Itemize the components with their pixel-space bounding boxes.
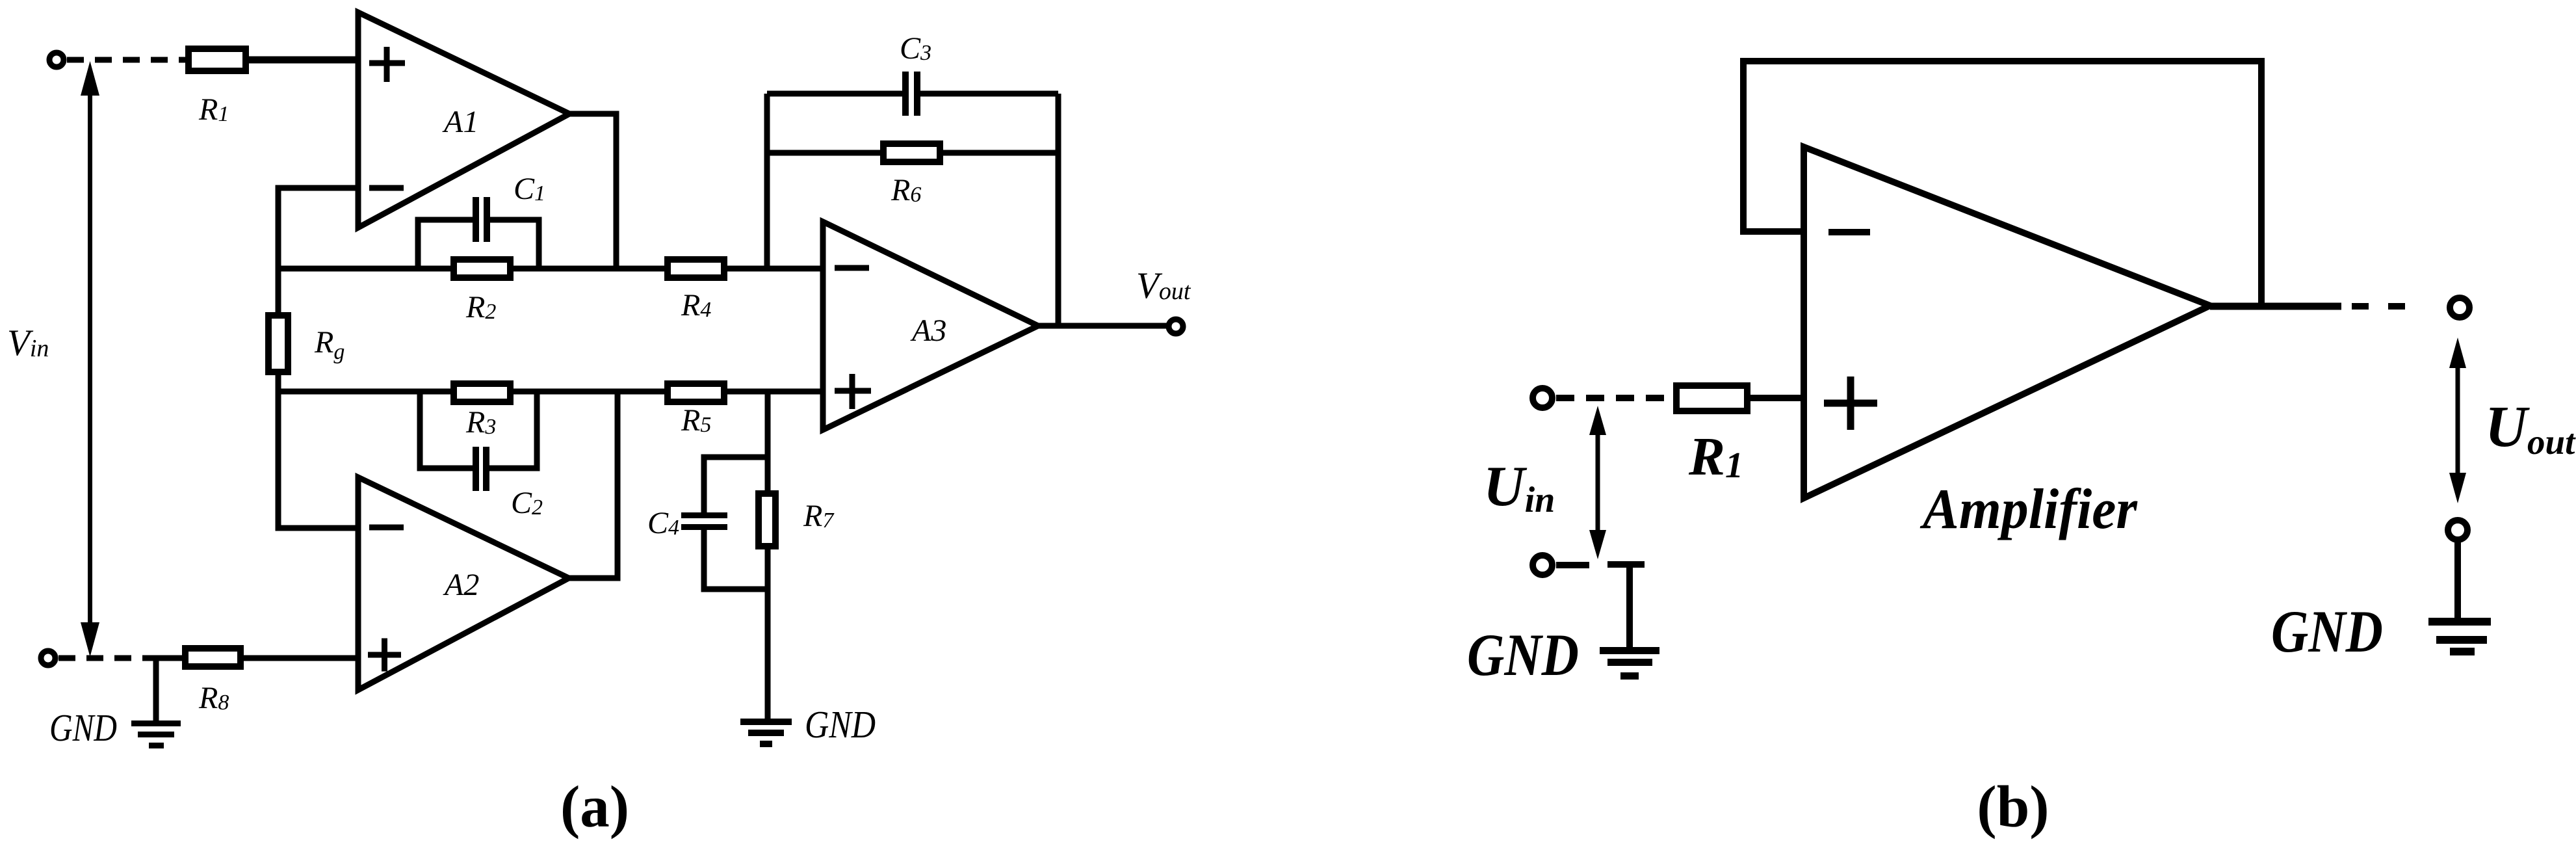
- wire R7 branch vertical: [765, 391, 771, 720]
- wire R1 to A1 + input: [246, 57, 359, 64]
- op-amp A1: [358, 12, 569, 228]
- capacitor C2 bracket: [420, 391, 537, 468]
- resistor Rg: [268, 315, 288, 372]
- wire Amplifier output (b): [2210, 303, 2341, 310]
- svg-text:GND: GND: [2271, 598, 2383, 665]
- resistor R1 (b): [1676, 386, 1747, 411]
- Amplifier minus pin: [1828, 229, 1870, 235]
- svg-text:Amplifier: Amplifier: [1919, 478, 2137, 541]
- wire R1 to + input (b): [1747, 395, 1805, 401]
- op-amp Amplifier triangle (b): [1804, 147, 2210, 498]
- A1 minus pin: [369, 185, 404, 191]
- capacitor C3 top row: [767, 91, 1058, 97]
- resistor R7: [759, 494, 775, 546]
- wire R8 to A2 + input: [241, 655, 359, 661]
- A2 plus pin: [368, 639, 401, 672]
- resistor R3: [454, 384, 510, 402]
- wire C3/R6 feedback bracket verticals: [767, 94, 1058, 326]
- ground GND stub T-bar (b left): [1607, 564, 1645, 648]
- wire dashed input (b): [1556, 395, 1673, 401]
- capacitor C4 plates: [681, 516, 727, 527]
- wire A3 output: [1038, 323, 1167, 329]
- svg-text:(a): (a): [560, 774, 629, 839]
- node Vin+ input terminal (a): [49, 53, 64, 67]
- resistor R8: [185, 648, 241, 667]
- wire A2 output up to lower row: [569, 391, 618, 578]
- A3 plus pin: [835, 374, 871, 409]
- wire to ground (b right): [2454, 540, 2461, 618]
- Uin measure arrow: [1589, 406, 1606, 559]
- A2 minus pin: [369, 525, 404, 531]
- resistor R6: [883, 144, 940, 162]
- wire dashed from bottom terminal to R8: [59, 655, 156, 661]
- capacitor C1 bracket: [418, 220, 539, 269]
- wire A1 inverting feedback left column: [278, 188, 358, 528]
- node Uout- terminal (b): [2448, 520, 2467, 540]
- wire feedback box (b): [1743, 61, 2261, 306]
- svg-text:GND: GND: [1467, 622, 1579, 688]
- wire lower row (R3/R5 row to A3 plus): [278, 389, 823, 395]
- Vin measure arrow (double-headed): [81, 61, 99, 657]
- A1 plus pin: [369, 47, 405, 82]
- node Uout+ terminal (b): [2450, 298, 2469, 317]
- wire R6 row: [767, 150, 1058, 156]
- Uout measure arrow: [2449, 337, 2466, 503]
- resistor R5: [668, 384, 724, 402]
- svg-text:GND: GND: [805, 703, 876, 746]
- capacitor C4 bracket: [704, 457, 768, 589]
- node Uin- terminal (b): [1533, 555, 1552, 575]
- resistor R4: [668, 259, 724, 278]
- ground GND bars (b right): [2428, 618, 2491, 655]
- svg-text:GND: GND: [49, 706, 117, 749]
- svg-text:(b): (b): [1977, 774, 2049, 839]
- resistor R2: [454, 259, 510, 278]
- op-amp A2: [358, 477, 569, 690]
- ground GND bars (b left): [1600, 647, 1659, 680]
- wire A1 output down to upper row: [569, 114, 616, 269]
- ground GND bottom bars: [740, 719, 792, 747]
- node Uin+ terminal (b): [1533, 388, 1552, 408]
- node Vin- input terminal (a): [41, 651, 55, 665]
- svg-text:A3: A3: [910, 313, 946, 348]
- ground GND left bars: [131, 720, 181, 748]
- Amplifier plus pin: [1824, 377, 1877, 430]
- A3 minus pin: [835, 265, 869, 271]
- svg-text:A2: A2: [443, 568, 479, 602]
- capacitor C2 plates: [476, 447, 486, 491]
- resistor R1: [189, 49, 246, 71]
- capacitor C1 plates: [476, 197, 487, 242]
- op-amp A3: [823, 222, 1038, 430]
- svg-text:A1: A1: [442, 105, 478, 139]
- wire dashed output (b): [2352, 303, 2405, 310]
- wire dashed from top terminal to R1: [67, 57, 187, 63]
- capacitor C3 plates: [905, 72, 917, 116]
- wire from lower terminal (b): [1556, 562, 1589, 568]
- node Vout terminal: [1169, 319, 1183, 334]
- ground GND left stub: [153, 658, 159, 720]
- wire solid to R8: [144, 655, 189, 661]
- wire upper row (R2/R4 row to A3 minus): [278, 266, 823, 272]
